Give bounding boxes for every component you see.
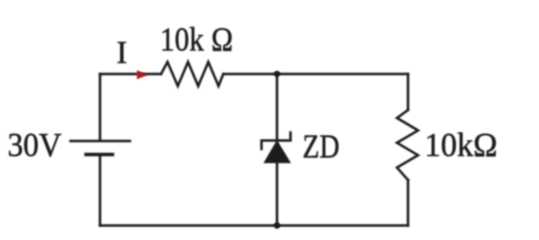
svg-text:30V: 30V bbox=[8, 127, 62, 164]
wire right rail lower bbox=[407, 180, 410, 226]
wire left rail lower bbox=[99, 156, 102, 226]
node junction dot top bbox=[274, 71, 280, 77]
wire zener branch lower bbox=[276, 163, 279, 226]
resistor R2 10k ohm (right) bbox=[397, 110, 418, 180]
zener diode ZD anode triangle bbox=[265, 142, 290, 163]
svg-text:I: I bbox=[117, 34, 128, 70]
wire zener branch upper bbox=[276, 74, 279, 141]
zener diode ZD cathode bar bbox=[262, 133, 291, 150]
resistor R1 10k ohm (top) bbox=[161, 62, 223, 86]
current arrow I (red) bbox=[137, 70, 149, 79]
wire top-right horizontal bbox=[223, 73, 408, 76]
wire bottom rail bbox=[100, 224, 408, 227]
battery V1 long plate bbox=[71, 140, 131, 142]
svg-text:ZD: ZD bbox=[303, 129, 340, 166]
battery V1 short plate bbox=[86, 153, 113, 156]
svg-text:10k Ω: 10k Ω bbox=[160, 22, 233, 59]
wire top-left horizontal bbox=[100, 73, 161, 76]
wire left rail upper bbox=[99, 74, 102, 140]
svg-text:10kΩ: 10kΩ bbox=[425, 127, 498, 164]
wire right rail upper bbox=[407, 74, 410, 110]
node junction dot bottom bbox=[274, 222, 280, 228]
